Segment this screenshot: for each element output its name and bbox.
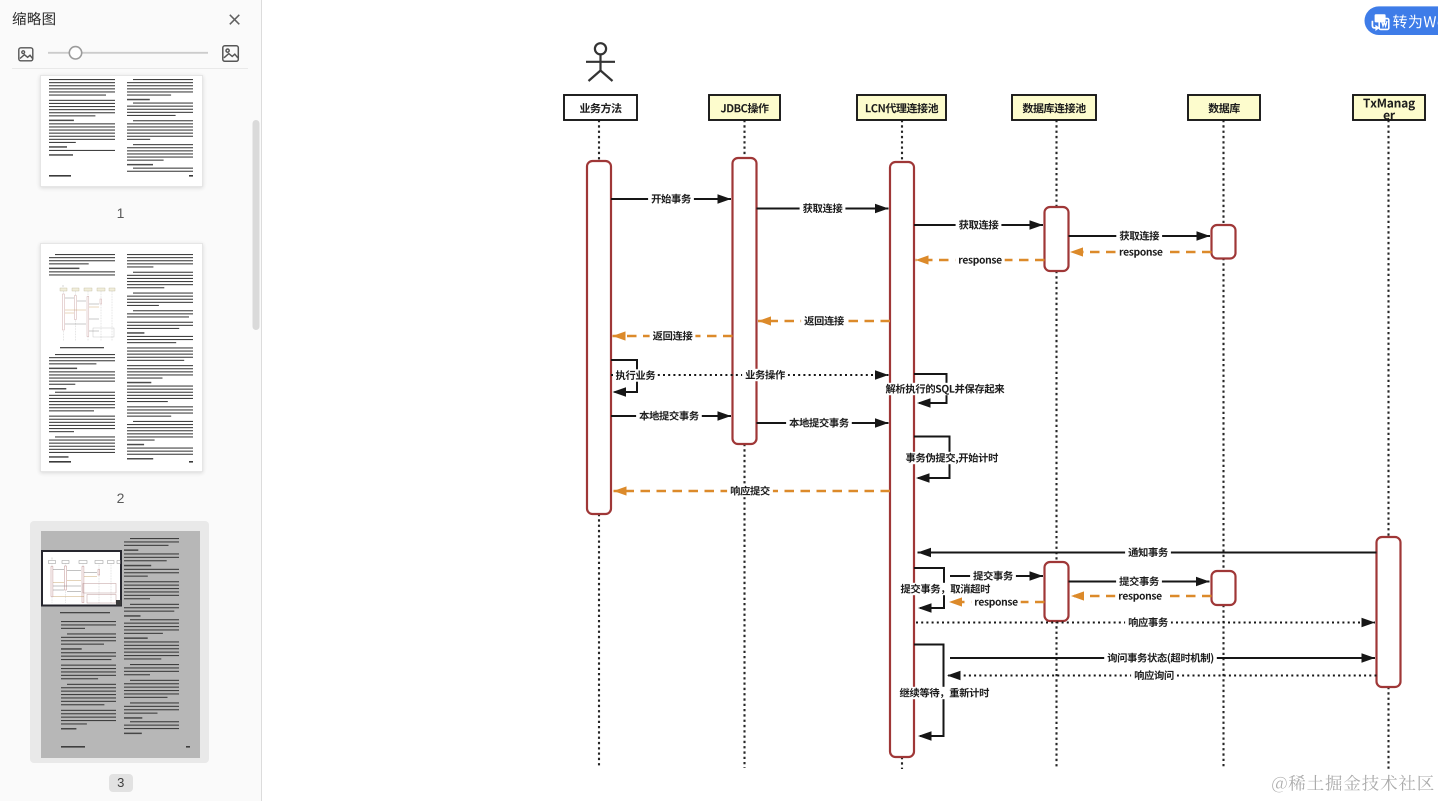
message 提交事务 连接池→数据库	[1069, 575, 1210, 587]
lifeline TxManager	[1387, 120, 1389, 770]
page 2 thumbnail	[40, 243, 203, 472]
close button X	[230, 15, 240, 24]
message 响应询问 (dotted)	[947, 669, 1377, 681]
self message 执行业务	[611, 360, 657, 397]
message response 数据库→连接池	[1070, 246, 1212, 258]
message 询问事务状态(超时机制)	[950, 652, 1375, 664]
message 业务操作 (dotted)	[611, 369, 889, 381]
message 返回连接 JDBC→业务方法	[613, 330, 733, 342]
participant box 数据库连接池	[1012, 95, 1096, 120]
self message 继续等待，重新计时	[898, 645, 992, 741]
small thumbnail-size icon	[19, 48, 33, 61]
activation bar 数据库 #1	[1212, 225, 1236, 259]
participant box TxManager	[1353, 95, 1425, 120]
convert-to-Word button	[1365, 6, 1438, 35]
message 响应事务 (dotted)	[916, 616, 1375, 628]
participant box 数据库	[1188, 95, 1260, 120]
message 通知事务 TxManager→LCN	[918, 546, 1377, 558]
message 提交事务 LCN→连接池	[950, 570, 1043, 582]
message 返回连接 LCN→JDBC	[758, 315, 890, 327]
message 获取连接 LCN→连接池	[914, 219, 1043, 231]
message 响应提交 LCN→业务方法	[614, 485, 891, 497]
page 3 number pill	[109, 774, 133, 792]
message response 连接池→LCN	[916, 254, 1045, 266]
message 获取连接 连接池→数据库	[1069, 230, 1211, 242]
lifeline 数据库连接池	[1055, 120, 1057, 768]
large thumbnail-size icon	[223, 46, 239, 62]
sidebar panel background	[0, 0, 261, 801]
message response 数据库→连接池 #2	[1071, 590, 1212, 602]
panel title 缩略图	[13, 12, 55, 25]
page 3 thumbnail (current page, dimmed with viewport box)	[41, 531, 200, 758]
page 2 number label	[40, 490, 201, 506]
lifeline JDBC操作	[743, 120, 745, 768]
participant box JDBC操作	[709, 95, 780, 120]
thumbnail scrollbar thumb	[253, 120, 260, 330]
message response 连接池→LCN #2	[949, 596, 1045, 608]
toolbar divider	[12, 68, 248, 70]
page 3 selected thumbnail container	[30, 521, 209, 763]
watermark @稀土掘金技术社区	[1272, 775, 1433, 793]
message 开始事务	[611, 193, 731, 205]
lifeline LCN代理连接池	[901, 120, 903, 769]
lifeline 数据库	[1222, 120, 1224, 768]
zoom slider track	[48, 52, 208, 54]
self message 提交事务，取消超时	[899, 568, 993, 613]
message 本地提交事务 业务方法→JDBC	[611, 410, 731, 422]
message 获取连接 JDBC→LCN	[757, 202, 889, 214]
self message 事务伪提交,开始计时	[904, 437, 1001, 483]
message 本地提交事务 JDBC→LCN	[757, 417, 889, 429]
activation bar JDBC操作	[733, 158, 757, 444]
activation bar LCN代理连接池	[890, 162, 914, 757]
activation bar 数据库 #2	[1212, 571, 1236, 605]
activation bar 业务方法	[587, 161, 611, 514]
page 1 thumbnail	[40, 75, 203, 187]
activation bar TxManager	[1377, 537, 1401, 687]
actor (user stick figure)	[586, 43, 615, 81]
lifeline 业务方法	[598, 120, 600, 768]
zoom slider knob	[69, 47, 81, 59]
activation bar 数据库连接池 #1	[1045, 207, 1069, 271]
page 1 number label	[40, 205, 201, 221]
activation bar 数据库连接池 #2	[1045, 562, 1069, 621]
participant box LCN代理连接池	[857, 95, 946, 120]
participant box 业务方法	[564, 95, 637, 120]
self message 解析执行的SQL并保存起来	[884, 374, 1007, 408]
